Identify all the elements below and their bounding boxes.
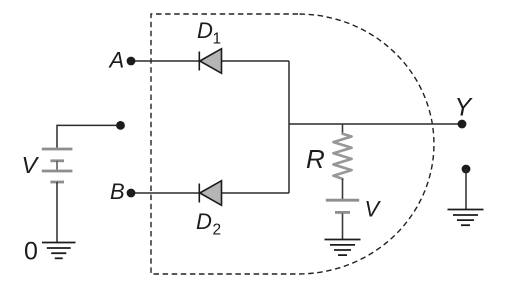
svg-text:A: A bbox=[108, 48, 125, 73]
label D1 bbox=[197, 18, 221, 48]
wire D1 to junction bbox=[222, 60, 290, 62]
wire right ground bbox=[465, 169, 467, 209]
dashed AND-gate outline bbox=[151, 14, 434, 274]
wire battery to node bbox=[57, 125, 121, 147]
wire battery to ground bbox=[56, 182, 58, 242]
svg-text:D: D bbox=[196, 209, 212, 234]
battery V (below R, one cell) bbox=[326, 200, 359, 212]
node right ground tap bbox=[462, 165, 471, 174]
wire output to Y bbox=[289, 123, 462, 125]
diode D2 bbox=[199, 181, 221, 206]
diode D1 bbox=[199, 49, 221, 74]
svg-text:D: D bbox=[197, 18, 213, 43]
ground (right) bbox=[448, 210, 484, 226]
svg-text:Y: Y bbox=[455, 93, 474, 121]
wire middle battery to ground bbox=[342, 214, 344, 240]
svg-text:R: R bbox=[306, 144, 325, 174]
wire D2 to junction bbox=[222, 192, 290, 194]
svg-text:0: 0 bbox=[24, 238, 38, 266]
svg-text:V: V bbox=[22, 152, 40, 178]
svg-text:2: 2 bbox=[213, 222, 222, 239]
wire junction vertical bbox=[288, 61, 290, 193]
node battery tap bbox=[116, 121, 125, 130]
node B bbox=[127, 189, 136, 198]
svg-text:B: B bbox=[110, 179, 125, 204]
svg-text:V: V bbox=[365, 196, 382, 221]
label D2 bbox=[196, 209, 221, 239]
ground (below middle battery) bbox=[325, 240, 361, 256]
node A bbox=[127, 57, 136, 66]
ground 0 (left) bbox=[42, 243, 76, 259]
node Y bbox=[458, 120, 467, 129]
battery V (left, two cells) bbox=[42, 149, 73, 182]
wire input A bbox=[131, 60, 199, 62]
wire input B bbox=[131, 192, 199, 194]
svg-text:1: 1 bbox=[213, 31, 222, 48]
resistor R bbox=[333, 124, 351, 200]
